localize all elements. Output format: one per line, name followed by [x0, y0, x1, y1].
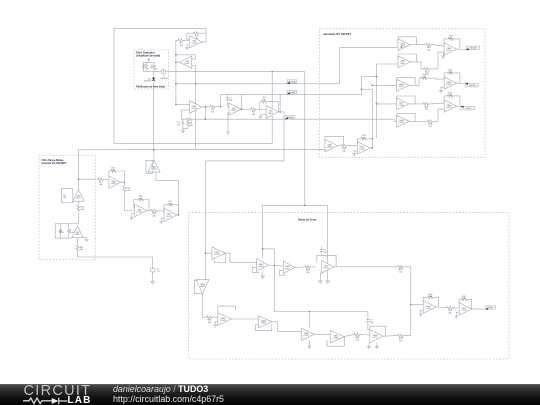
op-amp OA19 (sum A)	[444, 43, 457, 55]
svg-text:LF411: LF411	[137, 211, 142, 213]
resistor R13 (G feedback)	[110, 170, 118, 173]
svg-text:LF411: LF411	[304, 335, 309, 337]
resistor R28	[304, 266, 312, 274]
junction OA2 branch/W3	[195, 83, 197, 85]
wire: R6 bottom	[183, 127, 188, 129]
wire: to op2 input	[376, 63, 398, 65]
op-amp OA10 (I)	[164, 208, 177, 221]
svg-text:LF411: LF411	[75, 234, 80, 236]
wire: sumC out	[457, 105, 461, 107]
wire: C6 top stub	[321, 246, 323, 248]
wire: sumB out	[457, 82, 466, 84]
wire W3: to Ajustando box	[176, 48, 398, 84]
capacitor C6 (OA25 fb)	[320, 248, 328, 254]
svg-text:LF411: LF411	[192, 43, 197, 45]
wire: to R12	[78, 178, 96, 180]
ground (T)	[454, 314, 458, 318]
wire: sumB lower input	[441, 87, 444, 89]
resistor R1 (OA1 input)	[177, 39, 185, 47]
wire: R20 to sumA	[432, 45, 444, 46]
svg-text:LF411: LF411	[359, 149, 364, 151]
ground (sumA)	[441, 55, 445, 59]
ground (H)	[130, 216, 134, 220]
svg-text:LF411: LF411	[184, 63, 189, 65]
flag: Dente de Serra out	[485, 306, 495, 310]
wire: R4 to OA4 fb node	[216, 106, 220, 108]
op-amp OA11 (buffer J)	[148, 160, 160, 172]
op-amp OA1	[189, 36, 202, 48]
wire: G fb left	[108, 171, 111, 176]
resistor R7	[250, 108, 258, 116]
wire: T out to flag	[472, 308, 486, 310]
wire: OA13 fb right	[368, 139, 372, 148]
wire: J vertex up to W6	[153, 150, 155, 161]
svg-text:(Amplitude Senoidal): (Amplitude Senoidal)	[136, 55, 160, 58]
resistor R4 (OA3 out)	[209, 105, 217, 113]
resistor R15 (H feedback)	[137, 198, 145, 201]
junction long wire/OA30 drop	[309, 311, 311, 313]
resistor R23	[420, 77, 428, 80]
wire: R1 to OA1	[185, 39, 189, 41]
wire: C6 bottom to loop	[321, 253, 323, 255]
wire: C4 leads	[60, 224, 62, 229]
svg-text:LF411: LF411	[76, 198, 81, 200]
wire: M out down	[201, 294, 203, 317]
wire: G out	[121, 181, 124, 183]
capacitor C5	[67, 228, 75, 234]
wire: OA14 out	[416, 44, 425, 46]
flag: Senoide	[287, 80, 297, 84]
wire: trunk x=372.3 up	[371, 89, 373, 139]
op-amp OA27 (T)	[459, 303, 472, 316]
wire: C5 bottom lead	[68, 233, 70, 238]
junction trunk/L input	[205, 252, 207, 254]
wire: to L	[206, 252, 212, 254]
svg-text:LF411: LF411	[166, 216, 171, 218]
svg-text:(Atenuar DC OFFSET): (Atenuar DC OFFSET)	[42, 162, 67, 165]
wire: OA15 out path	[416, 62, 423, 69]
junction W6/buffer J	[153, 149, 155, 151]
wire: OA13 out up trunk	[370, 147, 372, 149]
junction: rectifier/wire W6	[153, 149, 155, 151]
flag: Triangular	[285, 115, 295, 119]
wire: OA1 output to loop	[202, 28, 206, 42]
wire: OA2 top input loop	[176, 55, 196, 59]
wire box: J feedback	[146, 160, 153, 173]
junction x=376.4 top	[376, 76, 378, 78]
wire: op17 input	[376, 103, 396, 105]
resistor R18	[340, 144, 348, 152]
ground arrow (reset net)	[326, 278, 330, 283]
capacitor C1 (tank)	[150, 64, 158, 70]
resistor R31	[446, 306, 454, 314]
wire: OA5 fb left leg	[259, 102, 261, 110]
wire: S fb left	[423, 297, 426, 303]
wire: cap rail top	[55, 223, 78, 225]
dashed box: Ajustando DC OFFSET	[319, 29, 485, 157]
svg-text:LF411: LF411	[399, 122, 404, 124]
svg-text:10uF: 10uF	[59, 232, 64, 234]
junction: node A / OA2 top	[175, 54, 177, 56]
wire: OA4 out	[241, 108, 250, 110]
wire: I fb right	[175, 205, 179, 215]
svg-text:LF411: LF411	[200, 286, 205, 288]
wire: C5 top lead	[68, 224, 70, 229]
wire box: OA14 feedback	[398, 37, 416, 45]
resistor R20	[425, 43, 433, 51]
wire: tank to current source	[154, 71, 161, 73]
svg-text:Triang.: Triang.	[288, 116, 294, 119]
junction OA4 fb left	[220, 106, 222, 108]
wire: OA12 out	[337, 145, 340, 147]
op-amp OA15	[398, 56, 411, 68]
wire box: N feedback below	[252, 267, 259, 272]
op-amp OA32 (P)	[218, 313, 232, 326]
wire W2: down x=304.8	[304, 72, 306, 206]
wire: OA1 feedback resistor right lead	[200, 32, 206, 34]
op-amp OA16	[397, 79, 410, 91]
svg-text:Quadr.: Quadr.	[290, 91, 296, 94]
wire: OA1 big feedback loop top	[114, 28, 272, 143]
footer bar	[0, 384, 540, 405]
wire W2: down to reset ground	[327, 205, 329, 278]
wire: OA3 out	[202, 106, 210, 108]
ground arrow (OA25)	[319, 278, 323, 283]
wire: long wire y=311.5	[274, 311, 368, 313]
diode D1	[152, 78, 155, 81]
wire: R28 to OA25	[312, 266, 316, 268]
wire box: OA16 feedback	[397, 77, 415, 85]
op-amp OA21 (sum C)	[444, 100, 457, 112]
ground (OA28 b)	[375, 345, 379, 349]
wire: OA17 out	[415, 103, 423, 105]
dashed box: Filtro Capacitivo / Retificador de Meia-Onda	[134, 50, 168, 89]
op-amp OA30 (C2)	[301, 328, 314, 341]
wire: G fb right	[118, 171, 125, 182]
junction I out	[178, 214, 180, 216]
wire: R26 up to sumC	[434, 109, 444, 121]
op-amp OA7 (buffer F)	[72, 226, 83, 237]
wire: OA5 out up to W4	[279, 94, 281, 112]
junction: tap to G row	[78, 178, 80, 180]
wire box: P feedback above	[218, 306, 236, 316]
svg-text:Sen+N: Sen+N	[470, 48, 476, 50]
svg-text:LF411: LF411	[220, 320, 225, 322]
resistor R22 (sumA fb)	[447, 37, 455, 40]
CircuitLab logo	[23, 385, 103, 405]
wire box: M feedback left	[194, 280, 202, 293]
svg-text:LF411: LF411	[372, 337, 377, 339]
junction W1/W2	[271, 71, 273, 73]
op-amp OA25 (R)	[322, 260, 334, 273]
resistor R12	[97, 178, 105, 186]
wire: OA3 minus to feedback row	[182, 110, 190, 119]
wire: R35 to P	[213, 316, 218, 318]
svg-text:10k: 10k	[63, 197, 66, 199]
svg-text:LF411: LF411	[446, 107, 451, 109]
wire: R16 to I	[158, 210, 164, 212]
wire: branch to S	[411, 304, 423, 306]
wire: R7 to OA5	[257, 108, 266, 110]
ground (OA4)	[226, 130, 230, 134]
resistor R24 (sumB fb)	[446, 71, 454, 74]
svg-text:Senoide: Senoide	[289, 81, 296, 83]
resistor R14	[123, 185, 131, 193]
wire: sumB fb left	[444, 73, 446, 79]
op-amp OA33 (M)	[196, 280, 209, 294]
wire: OA5 plus to gnd	[261, 114, 267, 116]
op-amp OA29 (B-prime)	[330, 330, 344, 343]
wire: OA2 output to node A	[176, 61, 180, 63]
ground (I)	[159, 220, 163, 224]
svg-text:LF411: LF411	[214, 254, 219, 256]
junction trunk/branch S	[410, 304, 412, 306]
wire: R23 to sumB	[428, 78, 444, 79]
wire: O out	[295, 266, 304, 268]
wire box: O feedback below	[279, 270, 285, 275]
wire: OA3 output feedback tap	[204, 107, 206, 120]
wire: C2 to gnd rail	[182, 126, 184, 129]
logo resistor + diode glyph	[23, 398, 52, 403]
wire: R14 down to H	[124, 193, 134, 210]
wire: V1 to ground	[152, 272, 154, 279]
ground (buffer F)	[85, 238, 89, 242]
ground (OA3 feedback)	[181, 129, 185, 133]
wire: feedback row W5 left段	[182, 118, 186, 120]
wire box: OA29 feedback below	[327, 337, 344, 347]
wire: drop to OA30	[308, 312, 310, 329]
node arrow (input probe)	[148, 58, 151, 62]
svg-text:Qua+N: Qua+N	[469, 85, 476, 87]
wire: R29 to down trunk	[404, 267, 411, 336]
wire: R18 to OA13	[348, 145, 358, 147]
junction OA5 out	[279, 111, 281, 113]
wire: C7 bottom	[368, 323, 370, 329]
svg-text:LF411: LF411	[446, 50, 451, 52]
wire: C4 bottom lead	[60, 233, 62, 238]
wire: bottom rail to C-prime	[404, 335, 411, 337]
wire: OA30 gnd stub	[308, 341, 310, 345]
wire: OA1 feedback to inverting input	[187, 33, 193, 39]
svg-text:LF411: LF411	[446, 84, 451, 86]
wire W7: down to Dente box	[206, 112, 285, 280]
wire: cap rail bottom	[55, 237, 72, 239]
svg-text:Dente de Serra: Dente de Serra	[298, 217, 317, 221]
op-amp OA31 (Q)	[258, 316, 272, 329]
ground (OA5)	[259, 115, 263, 119]
ground (OA30)	[307, 345, 311, 349]
wire: OA25 gnd stub a	[321, 273, 322, 278]
op-amp OA13	[357, 142, 370, 155]
svg-text:LF411: LF411	[400, 63, 405, 65]
wire box: OA18 feedback	[397, 113, 415, 121]
junction: OA3 out/tap	[205, 106, 207, 108]
junction W3/OA14	[401, 47, 403, 49]
wire box: OA12 feedback	[325, 136, 344, 145]
junction W4 riser	[361, 88, 363, 90]
op-amp OA5	[266, 105, 278, 118]
capacitor C2	[177, 120, 185, 126]
resistor R29	[397, 265, 405, 273]
resistor R25	[422, 102, 430, 110]
junction trunk/fb	[371, 138, 373, 140]
resistor R34	[353, 333, 361, 341]
wire W2: down to OA23	[262, 205, 264, 258]
resistor R19 (OA13 fb)	[360, 137, 368, 140]
capacitor C3 (OA4 input)	[226, 96, 234, 102]
ground (P)	[213, 323, 217, 327]
wire box: OA15 feedback	[398, 54, 416, 62]
junction: node A / OA2 out	[175, 61, 177, 63]
wire: riser to x=376.4	[361, 76, 376, 78]
svg-text:1N4148: 1N4148	[144, 81, 152, 83]
wire: L out to N	[225, 253, 256, 262]
wire: sumC fb left	[444, 96, 446, 102]
wire W5: feedback row long wire	[194, 119, 397, 121]
wire: OA28 gnd b	[376, 343, 378, 345]
resistor R16	[150, 209, 158, 217]
wire: C2prime out to Bprime	[314, 333, 330, 335]
junction N out trunk	[274, 265, 276, 267]
wire: M out to R35	[202, 316, 206, 318]
op-amp OA9 (H)	[135, 204, 147, 217]
wire box: OA25 feedback	[317, 255, 336, 266]
op-amp OA18	[397, 115, 410, 127]
dashed box: Dente de Serra	[189, 212, 510, 359]
wire: C3 to OA4 input	[227, 101, 229, 106]
wire: OA13 fb left	[357, 139, 360, 145]
capacitor C7	[366, 318, 374, 324]
svg-text:LF411: LF411	[399, 86, 404, 88]
resistor R2 (OA1 feedback)	[192, 32, 200, 40]
wire box: Q feedback below	[255, 325, 271, 331]
wire: source drop	[152, 257, 154, 268]
wire: S out	[436, 306, 447, 309]
wire: rectifier vertical (x=153.6)	[153, 72, 155, 78]
resistor R33	[397, 334, 405, 342]
wire: trunk x=274.4 down	[273, 266, 275, 312]
wire: W4 riser up	[360, 77, 362, 95]
wire W2: I1 to right trunk	[166, 71, 305, 73]
wire: R21 up to sumA	[430, 52, 444, 69]
wire: I plus gnd	[161, 218, 164, 220]
op-amp OA17	[397, 98, 410, 110]
junction W2/N loop	[262, 248, 264, 250]
op-amp OA8 (G)	[109, 176, 121, 188]
ground (S)	[419, 312, 423, 316]
svg-text:LF411: LF411	[399, 105, 404, 107]
wire: T fb right	[468, 299, 472, 309]
op-amp OA6 (buffer E)	[73, 190, 84, 202]
wire: I fb left	[164, 205, 166, 212]
wire: OA28 gnd a	[368, 343, 370, 345]
svg-text:LF411: LF411	[323, 268, 328, 270]
op-amp OA20 (sum B)	[444, 77, 457, 89]
svg-text:100 mA: 100 mA	[160, 77, 168, 80]
wire: R12 to G	[105, 178, 109, 180]
wire: T plus gnd	[456, 312, 459, 314]
svg-text:LF411: LF411	[111, 183, 116, 185]
wire: S plus gnd	[421, 310, 424, 312]
wire: vertical node A (x=175.9)	[175, 40, 177, 104]
wire: OA3 input	[176, 103, 190, 105]
svg-text:Retificador de Meia-Onda: Retificador de Meia-Onda	[136, 86, 165, 89]
resistor R8 (OA5 feedback)	[260, 100, 268, 103]
wire: C3 top to W4	[226, 94, 228, 96]
wire: N gnd stub	[262, 271, 264, 273]
resistor R17 (I feedback)	[167, 203, 175, 206]
op-amp OA28 (C-prime)	[370, 330, 383, 343]
ground (OA1 +input)	[185, 46, 189, 50]
wire: N out	[268, 265, 283, 266]
op-amp OA14	[398, 39, 411, 51]
ground arrow (V1)	[151, 279, 155, 284]
wire: trunk link to W4 riser	[361, 88, 372, 90]
wire: C7 top to long wire	[367, 312, 369, 318]
wire: W4 left leg	[220, 94, 222, 106]
wire: sumA fb right	[455, 39, 460, 49]
wire: F base gnd stub	[83, 237, 86, 239]
svg-text:LF411: LF411	[461, 310, 466, 312]
wire: I out up to J	[156, 172, 179, 215]
voltage source V1	[150, 268, 155, 274]
junction trunk/op16	[371, 84, 373, 86]
wire: OA18 out path	[415, 120, 427, 122]
op-amp OA24 (O)	[283, 261, 294, 274]
wire: P plus gnd	[215, 322, 218, 324]
wire: R1 left lead	[176, 39, 177, 41]
junction node A end	[175, 104, 177, 106]
resistor R30 (S fb)	[426, 296, 434, 299]
wire: R33 to C-prime out	[383, 335, 397, 338]
wire W6: retificador to Ajustando lower-left	[78, 148, 325, 151]
wire: F down	[77, 238, 79, 245]
resistor R3 (tank)	[142, 63, 148, 71]
svg-text:LF411: LF411	[333, 338, 338, 340]
svg-text:LF411: LF411	[151, 169, 156, 171]
wire W4: OA4 feedback top / flag2 wire	[221, 93, 362, 95]
resistor R27 (sumC fb)	[446, 94, 454, 97]
wire: OA2 inverting input down	[192, 66, 196, 150]
svg-text:Tri+N: Tri+N	[466, 107, 471, 110]
op-amp OA3	[190, 101, 202, 113]
wire: C2 top	[182, 119, 184, 120]
current source I1	[161, 69, 166, 74]
wire: R10 to cap rail	[77, 212, 80, 223]
wire box: L feedback	[214, 253, 225, 262]
wire: Q out to OA30	[272, 322, 301, 332]
wire: S fb right	[434, 297, 438, 307]
junction trunk/op17	[376, 103, 378, 105]
junction W2 split	[304, 205, 306, 207]
svg-text:Ajustando DC OFFSET: Ajustando DC OFFSET	[323, 32, 352, 36]
capacitor C4	[59, 228, 65, 234]
wire: G out down	[123, 182, 125, 185]
wire: W2 into N top + loop	[263, 249, 275, 266]
wire: R11 to bottom rail	[78, 252, 153, 257]
op-amp OA26 (S)	[423, 301, 436, 314]
junction node A/W3	[175, 83, 177, 85]
resistor R11	[76, 244, 84, 252]
wire: trunk x=376.4	[375, 64, 377, 139]
wire: H fb left	[134, 200, 137, 208]
wire box: OA28 feedback	[370, 326, 386, 336]
wire: sumA out	[457, 48, 466, 50]
wire: R6 top	[187, 119, 189, 120]
wire: T fb left	[458, 299, 461, 305]
wire: sumC fb right	[454, 96, 460, 106]
wire: OA4 plus to ground	[228, 112, 229, 130]
